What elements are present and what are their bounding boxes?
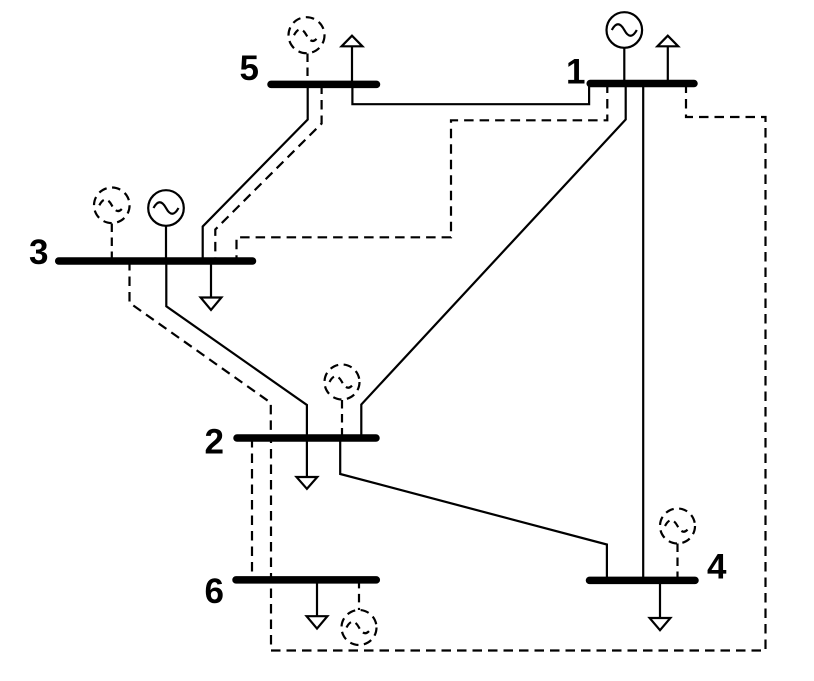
bus 4 busbar (590, 577, 696, 585)
load arrow at bus 4 (down) (650, 580, 671, 630)
generator G2 (dashed) at bus 2 (325, 365, 360, 439)
bus 1 busbar (590, 80, 694, 88)
load arrow at bus 2 (down) (297, 438, 318, 489)
bus 3 busbar (59, 257, 253, 265)
generator G3b (dashed) at bus 3 (94, 188, 130, 262)
wire line 2-6 (dashed) (251, 438, 253, 580)
wire line 5-1 (solid) (352, 84, 589, 105)
load arrow at bus 5 (up) (342, 36, 363, 85)
wire line 2-4 (solid) (340, 438, 607, 580)
generator G4 (dashed) at bus 4 (660, 509, 695, 581)
svg-text:3: 3 (29, 233, 48, 272)
generator G1 (solid) at bus 1 (607, 12, 643, 83)
load arrow at bus 1 (up) (657, 36, 678, 84)
wire line 1-3 (dashed) (237, 84, 608, 262)
svg-text:4: 4 (707, 548, 727, 587)
load arrow at bus 6 (down) (307, 580, 328, 629)
generator G6 (dashed) below bus 6 (342, 580, 377, 645)
bus 5 busbar (271, 81, 377, 89)
wire line 1-4 (solid) (642, 84, 644, 581)
wire line 3-2 (dashed) (130, 261, 271, 438)
wire line 3-2 (solid) (166, 261, 307, 438)
svg-text:2: 2 (205, 422, 224, 461)
wire line 1-2 (dashed loop) (271, 84, 766, 651)
bus 2 busbar (237, 434, 376, 442)
svg-text:6: 6 (205, 572, 224, 611)
generator G5 (dashed) at bus 5 (289, 17, 325, 84)
wire line 5-3 (solid) (203, 85, 308, 262)
wire line 1-2 (solid) (361, 84, 625, 439)
svg-text:1: 1 (566, 53, 585, 92)
svg-text:5: 5 (240, 49, 259, 88)
wire line 5-3 (dashed) (215, 85, 321, 262)
load arrow at bus 3 (down) (201, 261, 222, 310)
generator G3 (solid) at bus 3 (148, 190, 184, 261)
bus 6 busbar (236, 576, 376, 584)
